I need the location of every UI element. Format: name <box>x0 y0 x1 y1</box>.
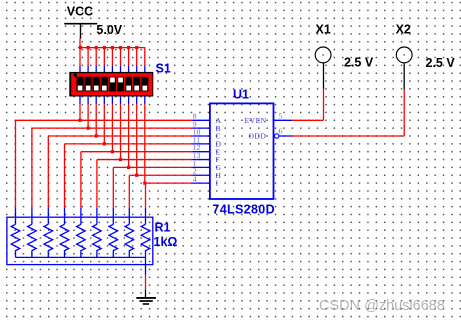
net 3: switch pin3 to U1 pin10 and R1 res3 <box>48 96 192 208</box>
wire bus drop 5 <box>111 48 113 73</box>
switch S1 lever 9 (down) <box>141 77 148 92</box>
switch S1 lever 7 (down) <box>125 77 132 92</box>
net 2: switch pin2 to U1 pin9 and R1 res2 <box>32 96 193 208</box>
U1 pin stub H pin2 <box>193 167 210 176</box>
wire bus drop 1 <box>79 48 81 73</box>
ground <box>136 290 156 304</box>
net 5: switch pin5 to U1 pin12 and R1 res5 <box>81 96 193 208</box>
svg-text:2.5 V: 2.5 V <box>426 56 456 70</box>
resistor R1 element 6 <box>93 208 102 257</box>
svg-text:ODD: ODD <box>248 132 266 141</box>
wire bus drop 7 <box>128 48 130 73</box>
wire ODD net to probe X2 <box>292 89 404 136</box>
junction dot bus wire5 <box>111 46 114 49</box>
svg-text:R1: R1 <box>155 221 171 235</box>
resistor R1 element 8 <box>125 208 134 257</box>
power VCC symbol <box>64 5 97 39</box>
net 6: switch pin6 to U1 pin13 and R1 res6 <box>97 96 193 208</box>
U1 pin stub B pin9 <box>193 120 210 129</box>
U1 pin stub E pin12 <box>193 143 210 152</box>
svg-text:6: 6 <box>279 126 283 135</box>
resistor R1 element 7 <box>109 208 118 257</box>
U1 pin stub C pin10 <box>193 127 210 136</box>
junction dot bus wire4 <box>103 46 106 49</box>
wire R1 common to ground <box>145 275 147 291</box>
resistor R1 element 4 <box>60 208 69 257</box>
wire bus drop 6 <box>120 48 122 73</box>
wire bus drop 8 <box>136 48 138 73</box>
svg-text:4: 4 <box>193 175 197 184</box>
svg-text:2.5 V: 2.5 V <box>344 56 374 70</box>
wire bus drop 3 <box>95 48 97 73</box>
net 7: switch pin7 to U1 pin1 and R1 res7 <box>113 96 192 208</box>
junction dot bus wire7 <box>127 46 130 49</box>
junction dot bus wire8 <box>135 46 138 49</box>
wire EVEN net to probe X1 <box>292 89 324 121</box>
svg-text:5.0V: 5.0V <box>96 23 122 37</box>
switch S1 lever 1 (down) <box>76 77 83 92</box>
U1 pin stub D pin11 <box>193 135 210 144</box>
svg-text:CSDN @zhusl6688: CSDN @zhusl6688 <box>319 298 445 314</box>
net 8: switch pin8 to U1 pin2 and R1 res8 <box>129 96 192 208</box>
net 9: switch pin9 to U1 pin4 and R1 res9 <box>143 96 192 208</box>
wire bus drop 4 <box>103 48 105 73</box>
R1 internal common bus <box>16 256 146 258</box>
resistor R1 element 9 <box>141 208 150 257</box>
net 1: switch pin1 to U1 pin8 and R1 res1 <box>16 96 193 208</box>
junction dot bus left end <box>78 46 82 49</box>
resistor R1 element 2 <box>28 208 37 257</box>
svg-text:U1: U1 <box>233 88 249 102</box>
switch S1 lever 4 (down) <box>101 77 108 92</box>
svg-text:5: 5 <box>279 112 283 121</box>
switch S1 lever 3 (down) <box>93 77 100 92</box>
wire bus drop 2 <box>87 48 89 73</box>
resistor R1 element 5 <box>77 208 86 257</box>
switch S1 lever 6 (up) <box>117 77 124 92</box>
U1 pin stub F pin13 <box>193 151 210 160</box>
svg-text:X1: X1 <box>316 22 331 36</box>
U1 pin stub I pin4 <box>193 175 210 184</box>
junction dot bus wire6 <box>119 46 122 49</box>
DIP switch S1 body <box>69 72 153 97</box>
U1 pin stub A pin8 <box>193 112 210 121</box>
switch S1 lever 8 (down) <box>133 77 140 92</box>
probe X1 <box>315 47 331 89</box>
net 4: switch pin4 to U1 pin11 and R1 res4 <box>65 96 193 208</box>
resistor pack R1 body <box>7 217 153 264</box>
resistor R1 element 1 <box>11 208 20 257</box>
wire top supply bus <box>78 47 145 49</box>
svg-text:X2: X2 <box>396 22 411 36</box>
junction dot bus wire3 <box>95 46 98 49</box>
svg-text:VCC: VCC <box>67 5 93 19</box>
resistor R1 element 3 <box>44 208 53 257</box>
switch S1 lever 2 (down) <box>85 77 92 92</box>
R1 common pin to pack edge <box>145 257 147 274</box>
svg-text:1kΩ: 1kΩ <box>154 235 178 249</box>
junction dot bus wire2 <box>87 46 90 49</box>
wire bus drop 9 <box>144 48 146 73</box>
probe X2 <box>396 47 412 89</box>
IC U1 74LS280D body <box>210 103 274 199</box>
wire VCC lead to bus <box>79 39 81 48</box>
svg-text:S1: S1 <box>156 61 171 75</box>
svg-text:EVEN: EVEN <box>245 116 267 125</box>
switch S1 lever 5 (up) <box>109 77 116 92</box>
U1 pin stub ODD pin6 with inversion bubble <box>275 126 292 138</box>
svg-text:74LS280D: 74LS280D <box>212 202 275 216</box>
U1 pin stub EVEN pin5 <box>274 112 292 121</box>
U1 pin stub G pin1 <box>193 159 210 168</box>
